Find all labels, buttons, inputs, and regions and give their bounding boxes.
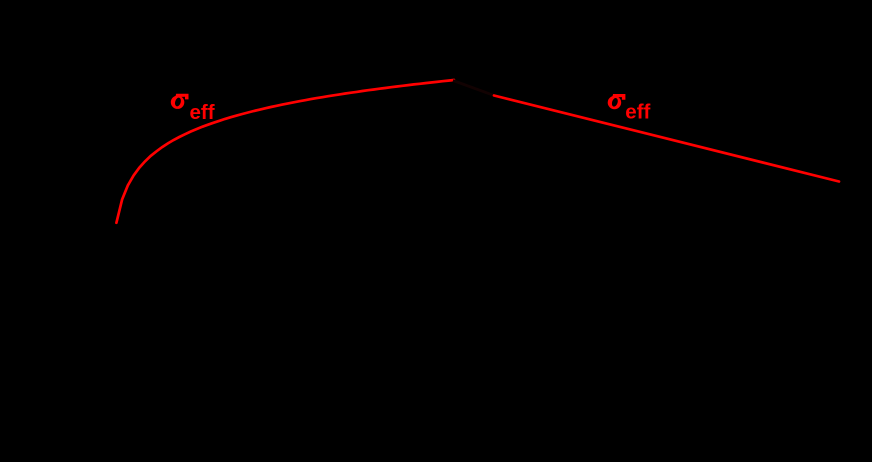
- curve sigma_eff rising branch: [116, 80, 454, 223]
- svg-text:eff: eff: [190, 101, 215, 124]
- label sigma right: [608, 94, 626, 109]
- svg-text:eff: eff: [625, 101, 650, 124]
- label sigma left: [171, 94, 189, 109]
- faint dark connector at peak: [453, 81, 495, 96]
- line sigma_eff falling branch: [494, 96, 839, 182]
